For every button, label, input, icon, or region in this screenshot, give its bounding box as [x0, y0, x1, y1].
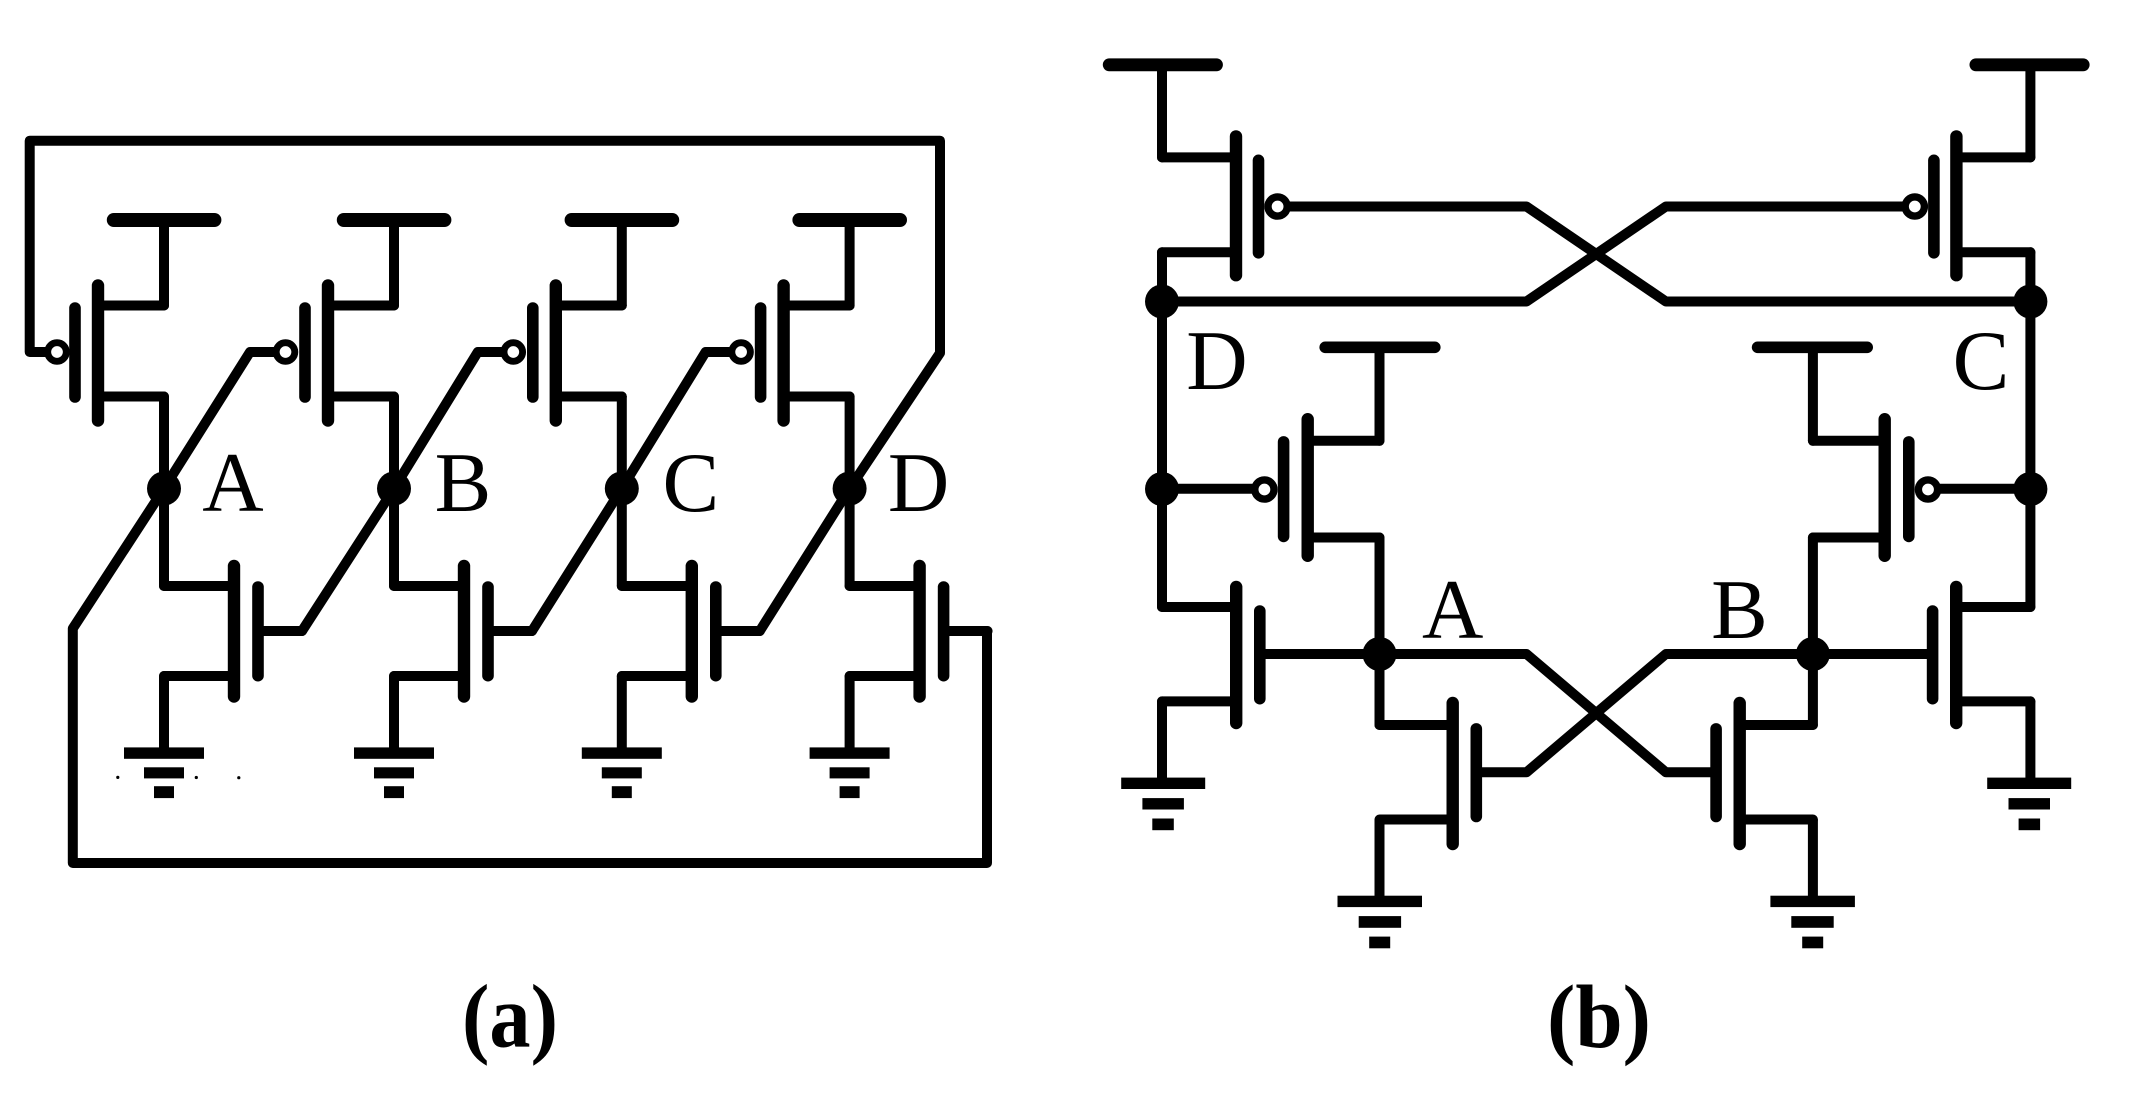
- transistor MNC (NMOS, outer right, circuit b): [1813, 587, 2031, 780]
- wire: node B to NMOS MNA gate (cross-coupled diagonal, circuit b): [1476, 654, 1813, 772]
- VDD supply symbol for PMOS MP4 (circuit a): [799, 220, 900, 306]
- wire: node C to NMOS MN2 gate (diagonal, circuit a): [532, 489, 622, 632]
- junction dot on node D net at inner PMOS gate tap (circuit b): [1145, 472, 1179, 506]
- wire: node B to PMOS MP3 gate (diagonal, circuit a): [394, 352, 502, 489]
- VDD supply symbol for PMOS MPA (circuit b): [1325, 347, 1435, 441]
- wire: node B to NMOS MN1 gate (diagonal, circuit a): [302, 489, 394, 632]
- node C junction dot (circuit b): [2013, 285, 2047, 319]
- svg-text:B: B: [1711, 563, 1768, 657]
- transistor MN2 (NMOS, stage 2, circuit a): [394, 489, 532, 748]
- svg-text:(a): (a): [462, 968, 558, 1067]
- VDD supply symbol for PMOS MP2 (circuit a): [344, 220, 445, 306]
- wire: node A to PMOS MP2 gate (diagonal, circuit a): [164, 352, 275, 489]
- node A junction dot (circuit a): [147, 472, 181, 506]
- node A junction dot (circuit b): [1363, 637, 1397, 671]
- VDD supply symbol for PMOS MPC (circuit b): [1976, 65, 2083, 158]
- transistor MP2 (PMOS, stage 2, circuit a): [276, 286, 394, 489]
- ground symbol for MND (circuit b): [1121, 778, 1205, 831]
- wire: feedback net from node A down left side, along bottom rail, up to NMOS MN4 gate (circuit a): [73, 489, 987, 864]
- svg-text:D: D: [1186, 314, 1247, 408]
- transistor MPD (PMOS, top left, circuit b): [1162, 136, 1287, 301]
- svg-text:(b): (b): [1547, 968, 1651, 1067]
- VDD supply symbol for PMOS MP3 (circuit a): [572, 220, 673, 306]
- transistor MPA (PMOS, inner left, circuit b): [1255, 419, 1380, 654]
- transistor MN1 (NMOS, stage 1, circuit a): [164, 489, 302, 748]
- wire: feedback net from node D up right side, across top rail, down to PMOS MP1 gate (circuit a): [30, 141, 940, 489]
- ground symbol for MNA (circuit b): [1338, 896, 1423, 949]
- transistor MP4 (PMOS, stage 4, circuit a): [732, 286, 850, 489]
- node D junction dot (circuit b): [1145, 285, 1179, 319]
- wire: node C to PMOS MP4 gate (diagonal, circuit a): [622, 352, 730, 489]
- transistor MN4 (NMOS, stage 4, circuit a): [850, 489, 988, 748]
- ground symbol for MN1 (circuit a): [124, 747, 204, 798]
- svg-text:B: B: [435, 436, 492, 530]
- transistor MPB (PMOS, inner right, circuit b): [1813, 419, 1938, 654]
- VDD supply symbol for PMOS MP1 (circuit a): [114, 220, 215, 306]
- svg-text:A: A: [1422, 563, 1483, 657]
- ground symbol for MN4 (circuit a): [810, 747, 890, 798]
- wire: node A to NMOS MNB gate (cross-coupled diagonal, circuit b): [1380, 654, 1717, 772]
- node B junction dot (circuit a): [377, 472, 411, 506]
- wire: node D to NMOS MN3 gate (diagonal, circuit a): [760, 489, 850, 632]
- wire: node C down right side to NMOS MNC drain (circuit b): [2025, 302, 2035, 608]
- transistor MP3 (PMOS, stage 3, circuit a): [504, 286, 622, 489]
- svg-text:D: D: [888, 436, 949, 530]
- stray speck dots near ground (circuit a): [116, 776, 119, 779]
- node D junction dot (circuit a): [833, 472, 867, 506]
- ground symbol for MNB (circuit b): [1770, 896, 1855, 949]
- ground symbol for MN3 (circuit a): [582, 747, 662, 798]
- wire: node C net to PMOS MPB gate (circuit b): [1940, 484, 2031, 494]
- VDD supply symbol for PMOS MPD (circuit b): [1109, 65, 1216, 158]
- transistor MPC (PMOS, top right, circuit b): [1905, 136, 2030, 301]
- transistor MP1 (PMOS, stage 1, circuit a): [48, 286, 164, 489]
- transistor MN3 (NMOS, stage 3, circuit a): [622, 489, 760, 748]
- transistor MND (NMOS, outer left, circuit b): [1162, 587, 1380, 780]
- ground symbol for MNC (circuit b): [1987, 778, 2071, 831]
- node C junction dot (circuit a): [605, 472, 639, 506]
- transistor MNA (NMOS, inner left, circuit b): [1380, 654, 1477, 897]
- node B junction dot (circuit b): [1796, 637, 1830, 671]
- VDD supply symbol for PMOS MPB (circuit b): [1758, 347, 1868, 441]
- junction dot on node C net at inner PMOS gate tap (circuit b): [2013, 472, 2047, 506]
- svg-text:C: C: [1953, 314, 2010, 408]
- wire: node D down left side to NMOS MND drain (circuit b): [1157, 302, 1167, 608]
- wire: node D net to PMOS MPA gate (circuit b): [1162, 484, 1253, 494]
- svg-text:C: C: [662, 436, 719, 530]
- wire: node D to PMOS MPC gate (cross-coupled, circuit b): [1162, 207, 1903, 302]
- ground symbol for MN2 (circuit a): [354, 747, 434, 798]
- svg-text:A: A: [202, 436, 263, 530]
- transistor MNB (NMOS, inner right, circuit b): [1716, 654, 1813, 897]
- wire: PMOS MPD gate to node C (cross-coupled, circuit b): [1290, 207, 2030, 302]
